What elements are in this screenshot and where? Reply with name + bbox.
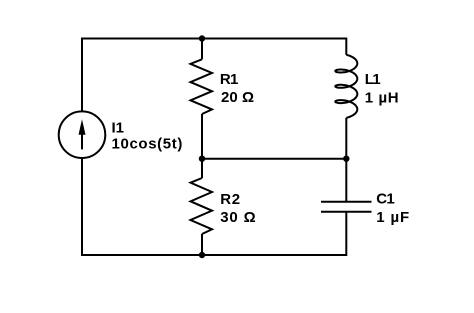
svg-text:R1: R1 [220, 71, 238, 88]
svg-text:1 µH: 1 µH [365, 89, 399, 106]
svg-text:20 Ω: 20 Ω [221, 89, 254, 106]
svg-text:1 µF: 1 µF [376, 209, 409, 226]
svg-text:R2: R2 [220, 191, 240, 208]
svg-text:I1: I1 [112, 120, 125, 137]
svg-text:C1: C1 [376, 191, 394, 208]
svg-text:10cos(5t): 10cos(5t) [112, 135, 183, 152]
svg-text:L1: L1 [365, 71, 381, 88]
svg-text:30 Ω: 30 Ω [220, 209, 255, 226]
